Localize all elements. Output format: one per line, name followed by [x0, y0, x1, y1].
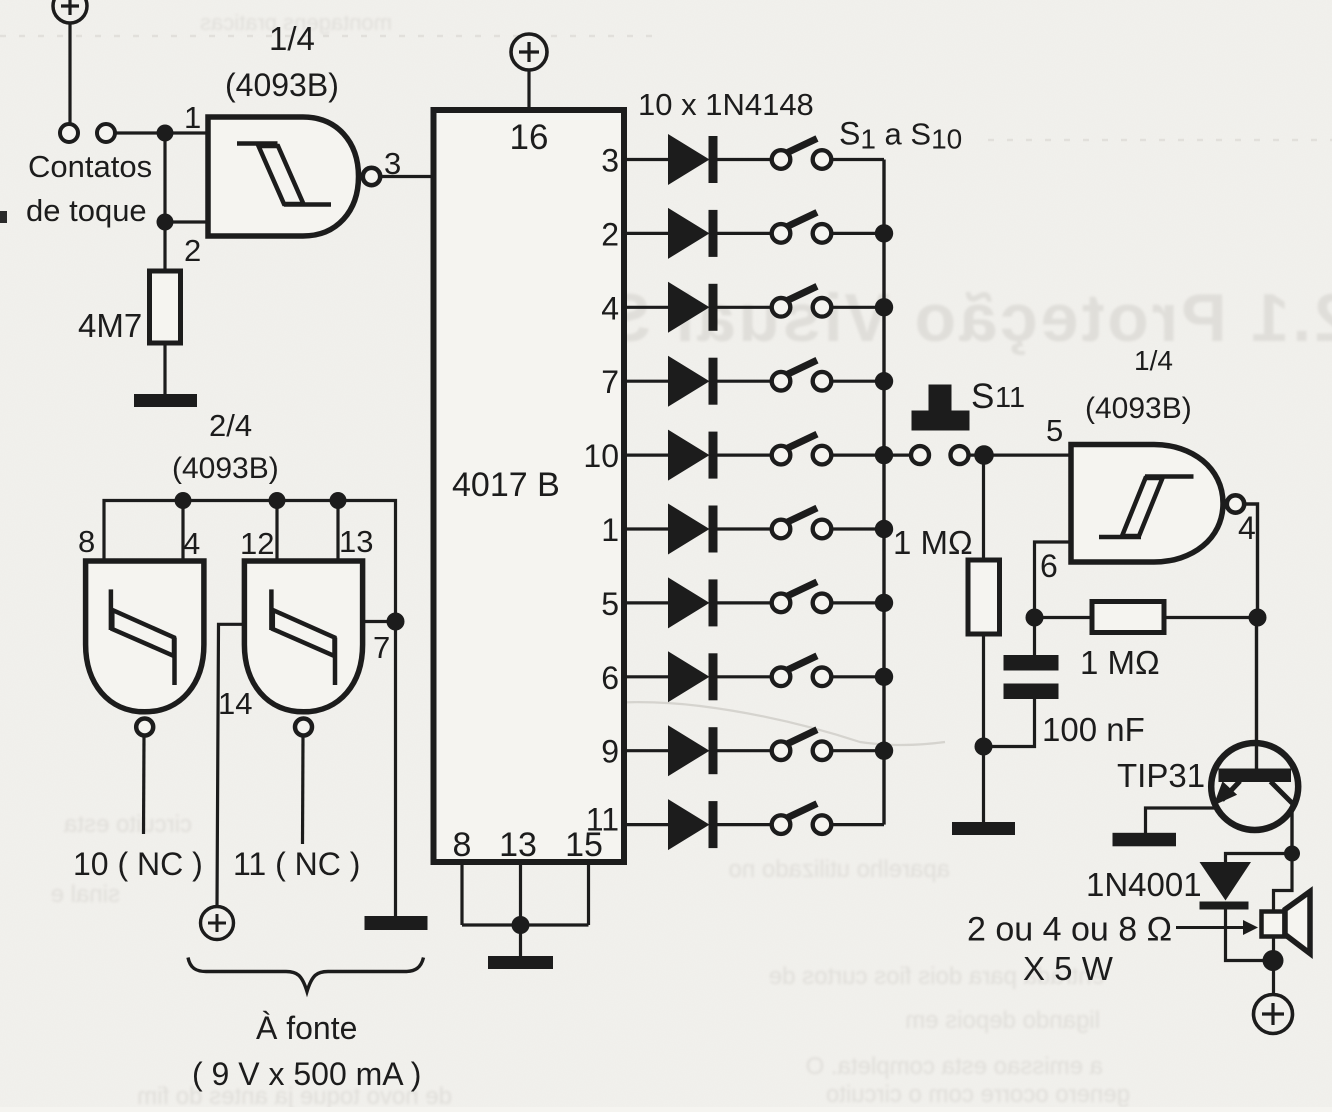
svg-text:10: 10 [583, 438, 619, 474]
svg-text:TIP31: TIP31 [1117, 757, 1205, 794]
wire: switch S6 to bus [832, 527, 885, 530]
label 2 ou 4 ou 8 ohm with arrow [967, 911, 1258, 949]
svg-text:2 ou 4 ou 8 Ω: 2 ou 4 ou 8 Ω [967, 911, 1172, 949]
faint scratch mark [540, 702, 945, 745]
pin number 6 [1040, 548, 1058, 584]
wire: switch S5 to S11 contacts [832, 454, 912, 457]
wire: TIP31 emitter to ground [1146, 808, 1216, 833]
junction pin 4 [175, 492, 192, 509]
wire: junction to ground [519, 925, 522, 957]
svg-text:X 5 W: X 5 W [1023, 950, 1114, 987]
resistor R1 4M7 [150, 271, 181, 343]
svg-text:12: 12 [240, 526, 274, 561]
label 2/4 (4093B) [172, 408, 279, 485]
wire: 4017 pin 3 to diode D1 [627, 158, 668, 161]
svg-text:4M7: 4M7 [78, 307, 142, 344]
wire: U1a output to 4017 pin 14 [381, 175, 432, 178]
pin number 4 [1238, 510, 1256, 546]
4017 pin number 2 [601, 216, 619, 252]
wire: 4017 pin 4 to diode D3 [627, 306, 668, 309]
junction on bus row pin 7 [875, 372, 893, 390]
svg-text:Contatos: Contatos [28, 149, 152, 184]
label S11 [971, 377, 1025, 416]
pin number 8 [78, 524, 95, 559]
speaker FTE [1262, 892, 1311, 954]
wire: D1 to switch S1 [718, 158, 772, 161]
wire: pin 4 drop [181, 501, 184, 562]
wire: 4017 pin 11 to diode D10 [627, 823, 668, 826]
4017 pin number 4 [601, 290, 619, 326]
wire: 4017 pin 7 to diode D4 [627, 380, 668, 383]
wire: D11 to speaker bottom node [1226, 909, 1265, 961]
pin number 14 [218, 686, 252, 721]
U1d output bubble [295, 719, 312, 736]
pushbutton S11 cap [912, 385, 970, 431]
value label 4M7 [78, 307, 142, 344]
wire: switch S1 to bus [832, 158, 885, 161]
wire: pin 12 drop [275, 501, 278, 562]
value label 1 MΩ (R2) [893, 524, 973, 561]
svg-text:3: 3 [601, 143, 619, 179]
svg-text:circuito esta: circuito esta [63, 811, 192, 838]
svg-text:a emissao esta completa. O: a emissao esta completa. O [806, 1053, 1103, 1080]
wire: switch S4 to bus [832, 380, 885, 383]
ground bar (pin 7) [365, 916, 428, 930]
label 10 x 1N4148 [638, 87, 814, 122]
wire: S11 to U1b pin 5 [969, 454, 1071, 457]
resistor R3 1M horizontal [1035, 602, 1258, 633]
resistor R2 1M vertical [968, 455, 1000, 822]
pin number 2 [184, 233, 201, 268]
wire: 4017 pin 5 to diode D7 [627, 601, 668, 604]
supply +V symbol (top left) [53, 0, 87, 23]
svg-text:(4093B): (4093B) [225, 67, 339, 103]
label Contatos de toque [26, 149, 152, 228]
svg-text:8: 8 [453, 826, 472, 864]
wire: 4017 pin 10 to diode D5 [627, 454, 668, 457]
pushbutton S11 contacts [911, 446, 969, 464]
switch S2 [772, 212, 832, 242]
label 1/4 (4093B) for U1a [225, 20, 339, 103]
capacitor C1 100 nF [984, 618, 1059, 747]
switch S4 [772, 360, 832, 390]
switch S7 [772, 582, 832, 612]
node junction S11 / R2 / gate pin5 [974, 445, 994, 465]
switch S9 [772, 730, 832, 760]
label 10 ( NC ) [73, 846, 203, 882]
pin number 15 [565, 826, 603, 864]
U1c output bubble [136, 719, 153, 736]
wire: switch S9 to bus [832, 749, 885, 752]
transistor Q1 TIP31 [1211, 743, 1298, 830]
diode D6 1N4148 [668, 504, 718, 555]
svg-text:1: 1 [601, 512, 619, 548]
svg-text:13: 13 [499, 826, 537, 864]
wire: 4017 pin 1 to diode D6 [627, 527, 668, 530]
wire: R1 to ground [163, 343, 166, 395]
svg-text:6: 6 [601, 660, 619, 696]
4017 pin number 10 [583, 438, 619, 474]
svg-text:11: 11 [586, 802, 619, 838]
svg-text:2: 2 [601, 216, 619, 252]
diode D8 1N4148 [668, 651, 718, 702]
4017 pin number 11 [586, 802, 619, 838]
wire: junction down to pin 2 [163, 133, 166, 222]
wire: D9 to switch S9 [718, 749, 772, 752]
svg-text:16: 16 [510, 118, 549, 157]
pin number 1 [184, 100, 201, 135]
wire: TIP31 collector down [1290, 803, 1293, 854]
IC label 4017 B [452, 466, 560, 504]
wire: D7 to switch S7 [718, 601, 772, 604]
svg-text:sinal e: sinal e [51, 881, 120, 908]
wire: U1c output (NC) [142, 736, 146, 835]
svg-text:4: 4 [1238, 510, 1256, 546]
svg-text:1N4001: 1N4001 [1086, 866, 1202, 903]
svg-text:( 9 V x 500 mA ): ( 9 V x 500 mA ) [192, 1056, 421, 1092]
wire: 4017 pin 9 to diode D9 [627, 749, 668, 752]
diode D2 1N4148 [668, 208, 718, 259]
diode D10 1N4148 [668, 799, 718, 850]
junction pin 13 [330, 492, 347, 509]
wire: switch S10 to bus [832, 823, 885, 826]
NAND gate U1b (4093B Schmitt) [1071, 445, 1223, 563]
node junction at pin1 [157, 125, 174, 142]
pin number 5 [1046, 413, 1063, 448]
svg-text:genero ocorre com o circuito: genero ocorre com o circuito [826, 1081, 1130, 1107]
pin number 4 [183, 526, 200, 561]
wire: U1d output (NC) [301, 736, 305, 845]
label 1/4 (4093B) for U1b [1085, 345, 1192, 425]
wire: D4 to switch S4 [718, 380, 772, 383]
wire: junction to TIP31 base [1255, 618, 1258, 771]
switch S1 [772, 139, 832, 169]
junction on bus row pin 2 [875, 224, 893, 242]
junction pin 7 node [387, 613, 405, 631]
wire: D2 to switch S2 [718, 232, 772, 235]
svg-text:1/4: 1/4 [1134, 345, 1173, 376]
4017 pin number 7 [601, 364, 619, 400]
wire: 4017 pin 2 to diode D2 [627, 232, 668, 235]
svg-text:ligando depois em: ligando depois em [905, 1007, 1100, 1034]
svg-text:10 x 1N4148: 10 x 1N4148 [638, 87, 814, 122]
pin number 7 [373, 630, 390, 665]
wires: pins 8,13,15 to common node [462, 865, 589, 925]
label 1N4001 [1086, 866, 1202, 903]
pin number 8 [453, 826, 472, 864]
wire: switch S7 to bus [832, 601, 885, 604]
junction on bus row pin 5 [875, 594, 893, 612]
pin number 13 [499, 826, 537, 864]
svg-text:9: 9 [601, 734, 619, 770]
diode D4 1N4148 [668, 356, 718, 407]
svg-text:7: 7 [373, 630, 390, 665]
svg-text:11 ( NC ): 11 ( NC ) [233, 846, 360, 882]
svg-text:1/4: 1/4 [269, 20, 315, 57]
wire: D6 to switch S6 [718, 527, 772, 530]
label X 5 W [1023, 950, 1114, 987]
svg-text:7: 7 [601, 364, 619, 400]
wire: pin 14 to +V [217, 624, 244, 906]
supply +V symbol above pin 16 [511, 34, 547, 70]
wire: switch S3 to bus [832, 306, 885, 309]
junction collector node [1284, 846, 1300, 862]
wire: switch S2 to bus [832, 232, 885, 235]
svg-text:4017 B: 4017 B [452, 466, 560, 504]
svg-text:1 MΩ: 1 MΩ [893, 524, 973, 561]
junction R2/C1 [975, 738, 993, 756]
switch S5 [772, 434, 832, 464]
svg-text:S: S [971, 377, 994, 416]
svg-text:11: 11 [995, 382, 1025, 414]
wire: switch S8 to bus [832, 675, 885, 678]
diode D7 1N4148 [668, 577, 718, 628]
touch contact terminals (Contatos de toque) [60, 124, 115, 142]
wire: 4017 pin 6 to diode D8 [627, 675, 668, 678]
svg-text:(4093B): (4093B) [172, 452, 279, 485]
wire: junction to gate U1a pin 2 [165, 220, 208, 223]
wire: speaker bottom to +V [1272, 937, 1275, 996]
wire: junction down to resistor R1 [163, 222, 166, 272]
svg-text:1 MΩ: 1 MΩ [1080, 644, 1160, 681]
svg-text:4: 4 [183, 526, 200, 561]
svg-text:3: 3 [384, 146, 401, 181]
svg-text:8: 8 [78, 524, 95, 559]
junction pin6/R3/C1 [1026, 609, 1044, 627]
switch S3 [772, 286, 832, 316]
wire: collector node to D11 [1226, 854, 1293, 863]
pin number 12 [240, 526, 274, 561]
switch S10 [772, 804, 832, 834]
ground bar under R2 [952, 822, 1015, 835]
svg-text:10 ( NC ): 10 ( NC ) [73, 846, 203, 882]
wire: U1b pin 6 [1035, 542, 1072, 612]
supply +V symbol (pin 14) [201, 907, 234, 940]
supply +V symbol (bottom right) [1254, 995, 1293, 1034]
diode D3 1N4148 [668, 282, 718, 333]
svg-text:5: 5 [601, 586, 619, 622]
NAND gate U1d (unused) [244, 561, 362, 712]
wire: collector node to speaker top [1274, 854, 1293, 912]
junction on bus row pin 4 [875, 298, 893, 316]
svg-text:14: 14 [218, 686, 252, 721]
junction on bus row pin 1 [875, 520, 893, 538]
value label 1 MΩ (R3) [1080, 644, 1160, 681]
diode D11 1N4001 [1200, 862, 1252, 910]
4017 pin number 6 [601, 660, 619, 696]
bus wire (right vertical, switches common) [882, 160, 885, 825]
ground bar under R1 [134, 394, 197, 407]
svg-text:5: 5 [1046, 413, 1063, 448]
wire: D10 to switch S10 [718, 823, 772, 826]
op-amp style NAND gate U1a (4093B Schmitt) [208, 117, 359, 236]
value label 100 nF [1042, 711, 1145, 748]
pin number 3 (U1a output) [384, 146, 401, 181]
wire: D8 to switch S8 [718, 675, 772, 678]
diode D1 1N4148 [668, 134, 718, 185]
wire: D5 to switch S5 [718, 454, 772, 457]
svg-text:À fonte: À fonte [256, 1010, 357, 1046]
pin number 13 [339, 524, 373, 559]
wire: U1b output down to junction [1245, 504, 1258, 618]
ground bar under 4017 [488, 956, 553, 969]
U1b output bubble [1227, 495, 1244, 512]
junction on bus row pin 9 [875, 742, 893, 760]
switch S8 [772, 656, 832, 686]
wire: +V to touch contact [68, 23, 71, 124]
svg-text:6: 6 [1040, 548, 1058, 584]
svg-text:(4093B): (4093B) [1085, 392, 1192, 425]
junction pin 12 [269, 492, 286, 509]
ground bar at TIP31 emitter [1113, 833, 1177, 847]
label TIP31 [1117, 757, 1205, 794]
4017 pin number 3 [601, 143, 619, 179]
wire: +V to pin 16 [527, 70, 530, 107]
wire: D3 to switch S3 [718, 306, 772, 309]
junction on bus row pin 6 [875, 668, 893, 686]
junction on bus row pin 10 [875, 446, 893, 464]
svg-text:100 nF: 100 nF [1042, 711, 1145, 748]
bus wire: unused gate inputs to ground [104, 501, 396, 917]
switch S6 [772, 508, 832, 538]
NAND gate U1c (unused) [86, 561, 204, 712]
svg-text:1: 1 [184, 100, 201, 135]
label 11 ( NC ) [233, 846, 360, 882]
svg-text:2: 2 [184, 233, 201, 268]
wire: contact to gate U1a pin 1 [115, 131, 208, 134]
junction speaker bottom [1263, 950, 1284, 971]
4017 pin number 1 [601, 512, 619, 548]
svg-text:13: 13 [339, 524, 373, 559]
IC U2 4017B body [434, 110, 625, 862]
wire: pin 13 drop [336, 501, 339, 562]
svg-text:4: 4 [601, 290, 619, 326]
node junction at pin2 [157, 214, 174, 231]
junction under pin 13 [512, 916, 530, 934]
svg-text:aparelho utilizado no: aparelho utilizado no [729, 856, 951, 883]
junction R3/base line [1249, 609, 1267, 627]
diode D5 1N4148 [668, 430, 718, 481]
label ( 9 V x 500 mA ) [192, 1056, 421, 1092]
label S1 a S10 [839, 116, 962, 155]
U1a output bubble [363, 168, 380, 185]
brace for supply [188, 958, 424, 992]
svg-text:2/4: 2/4 [209, 408, 252, 443]
svg-text:de toque: de toque [26, 193, 147, 228]
diode D9 1N4148 [668, 725, 718, 776]
label À fonte [256, 1010, 357, 1046]
faint bleed-through headline (reverse page) [558, 280, 1332, 356]
wire: gate side stub to pin 7 node [363, 620, 396, 623]
4017 pin number 5 [601, 586, 619, 622]
4017 pin number 9 [601, 734, 619, 770]
pin number 16 [510, 118, 549, 157]
